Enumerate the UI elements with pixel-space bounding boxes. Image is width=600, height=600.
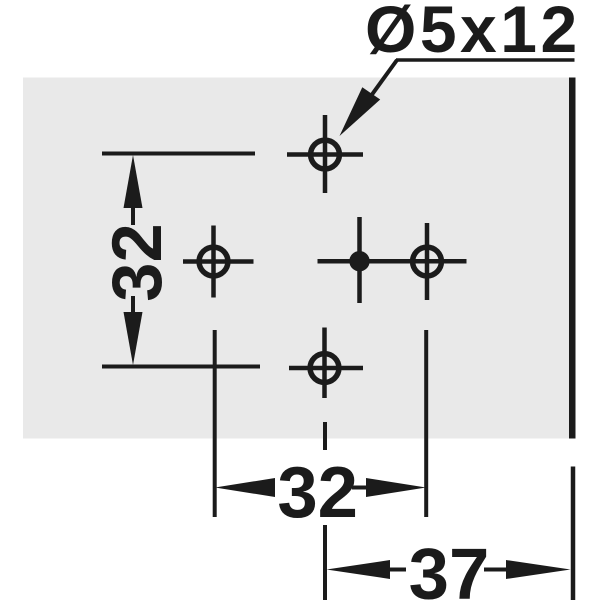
horizontal dim 32: right extension line bbox=[424, 330, 428, 517]
callout arrowhead bbox=[340, 87, 381, 136]
dim 37: right arrow bbox=[484, 560, 571, 579]
dim 37: mid extension segment lower bbox=[323, 525, 327, 600]
dim 37: left arrow bbox=[327, 560, 407, 579]
vertical dim 32: bottom witness line bbox=[102, 365, 260, 369]
svg-text:Ø5x12: Ø5x12 bbox=[365, 0, 581, 66]
svg-text:32: 32 bbox=[277, 452, 358, 533]
panel face (grey) bbox=[23, 78, 569, 439]
hole H1 top (crosshair circle) bbox=[287, 115, 363, 193]
callout leader line bbox=[355, 60, 397, 118]
dim 37: right extension line bbox=[571, 467, 576, 600]
centre reference dot (filled) bbox=[349, 217, 369, 303]
hole H2 left (crosshair circle) bbox=[183, 226, 254, 298]
panel edge thick line bbox=[569, 78, 576, 439]
horizontal dim 32: left arrow bbox=[215, 478, 275, 497]
svg-text:32: 32 bbox=[97, 223, 176, 301]
horizontal dim 32: left extension line bbox=[213, 330, 217, 517]
callout underline bbox=[396, 58, 575, 62]
hole H3 right (crosshair circle) bbox=[413, 223, 442, 300]
vertical dim 32: down arrow bbox=[124, 296, 143, 365]
svg-text:37: 37 bbox=[409, 534, 490, 600]
dim 37: mid extension segment upper bbox=[323, 422, 327, 450]
hole H4 bottom (crosshair circle) bbox=[289, 328, 363, 399]
centre axis line through dot and right hole bbox=[318, 259, 467, 264]
vertical dim 32: top witness line bbox=[102, 152, 255, 156]
horizontal dim 32: right arrow bbox=[352, 478, 426, 497]
vertical dim 32: up arrow bbox=[124, 155, 143, 225]
